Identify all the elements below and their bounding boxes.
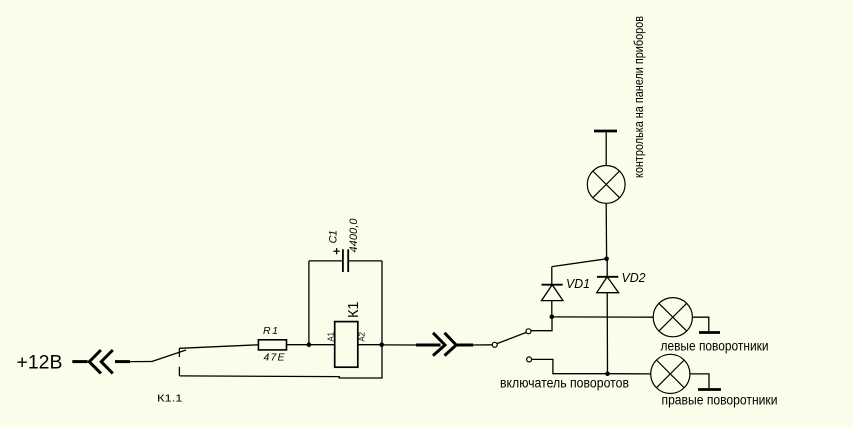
turn switch lower contact (527, 357, 532, 362)
wire node C to left lamp (552, 316, 653, 318)
wire right lamp to ground (690, 374, 709, 388)
wire lamp HL1 top to ground (605, 131, 607, 166)
left lamp HL2 (653, 298, 692, 337)
wire node E to right lamp (608, 373, 651, 375)
wire node B to connector X2 (382, 344, 417, 346)
svg-text:К1: К1 (345, 302, 362, 319)
node E junction dot (605, 371, 610, 376)
capacitor C1 top right wire (348, 260, 382, 262)
diode VD2 (597, 259, 619, 374)
svg-text:правые поворотники: правые поворотники (662, 392, 778, 407)
svg-text:4400,0: 4400,0 (348, 218, 360, 253)
node B junction dot (379, 342, 384, 347)
wire switch to R1 (179, 345, 258, 349)
wire VD1 top to node D (552, 259, 607, 267)
feedback wire node B down and left to switch post (179, 345, 382, 378)
svg-text:VD2: VD2 (622, 270, 647, 285)
svg-text:А2: А2 (357, 332, 367, 342)
svg-text:R1: R1 (263, 325, 278, 337)
ground left lamp (699, 331, 720, 334)
wire lower contact to node E (532, 359, 608, 373)
node C junction dot (550, 315, 555, 320)
node D junction dot (604, 257, 609, 262)
ground right lamp (698, 388, 721, 391)
svg-text:включатель поворотов: включатель поворотов (500, 376, 629, 391)
resistor R1 (258, 340, 286, 350)
svg-text:А1: А1 (326, 332, 336, 342)
capacitor C1 right lead (381, 261, 383, 345)
indicator lamp HL1 (587, 166, 625, 204)
turn switch pole contact (492, 342, 497, 347)
wire relay K1 to node B (358, 344, 382, 346)
right lamp HL3 (651, 354, 690, 393)
relay coil K1 box (335, 322, 358, 368)
ground indicator (594, 130, 617, 133)
switch contact K1.1 upper post (178, 348, 180, 357)
turn switch upper contact (526, 329, 531, 334)
wire connector X1 to switch (130, 361, 152, 363)
capacitor C1 left lead (308, 261, 310, 345)
wire left lamp to ground (692, 317, 708, 331)
wire lamp HL1 to node D (605, 203, 607, 258)
svg-text:левые поворотники: левые поворотники (661, 339, 769, 354)
wire connector X2 to turn switch pole (473, 344, 492, 346)
switch contact K1.1 lower post (178, 367, 180, 376)
svg-text:+12В: +12В (17, 351, 63, 373)
svg-text:С1: С1 (328, 230, 340, 244)
svg-text:47Е: 47Е (264, 352, 286, 364)
diode VD1 (542, 267, 564, 317)
wire node A to relay K1 (309, 344, 335, 346)
connector X1 (left, chevrons) (72, 350, 130, 373)
capacitor C1 plates (343, 249, 348, 272)
switch contact K1.1 lever (152, 350, 187, 362)
wire R1 to node A (287, 344, 309, 346)
wire upper contact to node C (531, 317, 552, 331)
svg-text:контролька на панели приборов: контролька на панели приборов (631, 16, 646, 178)
svg-text:VD1: VD1 (566, 276, 590, 291)
turn switch lever (497, 332, 526, 343)
node A junction dot (307, 342, 312, 347)
capacitor C1 plus sign (334, 248, 340, 254)
svg-text:К1.1: К1.1 (157, 393, 183, 405)
capacitor C1 top left wire (309, 260, 343, 262)
connector X2 (right, chevrons) (416, 333, 473, 356)
